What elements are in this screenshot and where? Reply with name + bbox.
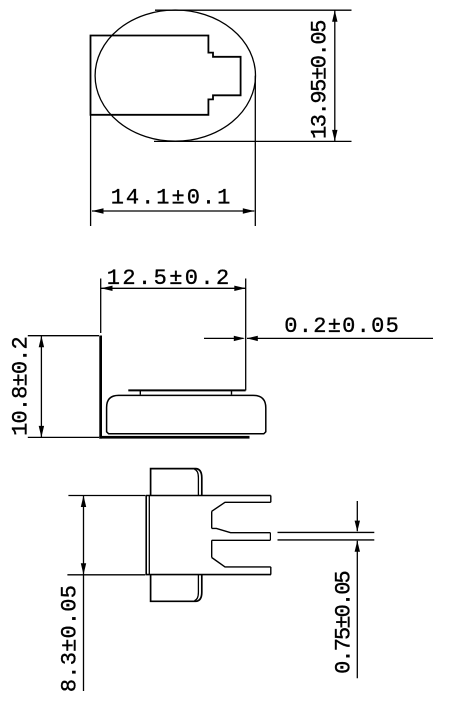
body left inner edge <box>148 496 150 575</box>
0.2 dim leader line right <box>247 337 433 339</box>
extension line right (12.5 / 0.2 dim) <box>245 279 247 391</box>
middle pin bottom edge <box>212 539 271 541</box>
middle pin end cap (before break) <box>269 533 271 541</box>
arrowhead up (0.75 bottom) <box>355 541 360 552</box>
extension line top (8.3 dim) <box>68 495 145 497</box>
arrowhead left-pointing (0.2) <box>247 336 258 341</box>
extension line left (12.5 dim) <box>100 279 102 334</box>
arrowhead down (10.8) <box>39 426 44 438</box>
top pin lower edge <box>212 502 271 511</box>
middle pin continuation bottom <box>278 539 375 541</box>
svg-text:14.1±0.1: 14.1±0.1 <box>111 185 233 210</box>
bottom pin top edge <box>212 558 271 567</box>
svg-text:8.3±0.05: 8.3±0.05 <box>58 585 83 692</box>
dimension line 8.3 vertical <box>83 496 85 692</box>
arrowhead up (8.3) <box>81 496 86 508</box>
arrowhead down (13.95 bottom) <box>332 130 337 142</box>
pin hub upper vertical <box>211 511 213 528</box>
svg-text:12.5±0.2: 12.5±0.2 <box>107 266 232 291</box>
dimension line 0.75 upper segment <box>356 501 358 531</box>
dimension line 10.8 vertical <box>40 336 42 438</box>
arrowhead down (0.75 top) <box>355 521 360 532</box>
top tab inner fold line <box>194 469 198 495</box>
extension line top (13.95 dim) <box>155 9 352 11</box>
pin hub lower vertical <box>211 540 213 557</box>
top pin end cap <box>270 496 272 503</box>
extension line bottom (13.95 dim) <box>154 140 352 142</box>
svg-text:10.8±0.2: 10.8±0.2 <box>9 337 34 436</box>
extension line bottom (8.3 dim) <box>67 574 145 576</box>
extension line bottom (10.8 dim) <box>28 436 99 438</box>
ceramic body (side view, rounded) <box>107 395 266 433</box>
ellipse body outline (top view) <box>95 10 255 141</box>
svg-text:0.75±0.05: 0.75±0.05 <box>332 571 357 673</box>
arrowhead up (13.95 top) <box>332 10 337 22</box>
metal cover bottom plate (thick) <box>99 436 249 439</box>
metal cover left wall (thick) <box>99 336 102 439</box>
body left outer edge <box>145 496 147 575</box>
arrowhead left (12.5) <box>101 286 113 291</box>
body bottom edge + bottom pin lower edge <box>146 574 271 576</box>
svg-text:0.2±0.05: 0.2±0.05 <box>284 314 400 339</box>
extension line top (10.8 dim) <box>28 335 99 337</box>
dimension line 0.75 lower segment <box>356 541 358 679</box>
arrowhead right (12.5) <box>234 286 246 291</box>
arrowhead right (14.1) <box>243 208 255 213</box>
bottom mounting tab outer <box>151 575 202 602</box>
bottom tab inner fold line <box>194 575 198 601</box>
extension line left (14.1 dim) <box>90 115 92 226</box>
arrowhead up (10.8) <box>39 336 44 348</box>
arrowhead left (14.1) <box>92 208 104 213</box>
bottom pin end cap <box>270 567 272 575</box>
dimension line 13.95 vertical <box>334 10 336 141</box>
cover top flange line <box>128 389 245 391</box>
svg-text:13.95±0.05: 13.95±0.05 <box>307 21 332 139</box>
dimension line 14.1 horizontal <box>92 210 254 212</box>
flange tick right <box>231 390 233 394</box>
top mounting tab outer <box>151 469 202 496</box>
arrowhead right-pointing (0.2) <box>234 336 245 341</box>
middle pin continuation top <box>278 531 375 533</box>
body top edge + top pin upper edge <box>146 495 271 497</box>
middle pin top edge with root <box>212 528 271 532</box>
arrowhead down (8.3) <box>81 563 86 575</box>
extension line right (14.1 dim) <box>254 76 256 226</box>
0.2 dim leader line left <box>204 337 244 339</box>
rotor plate with keyed notch (top view) <box>91 36 241 115</box>
flange tick left <box>139 390 141 394</box>
dimension line 12.5 <box>101 287 246 289</box>
